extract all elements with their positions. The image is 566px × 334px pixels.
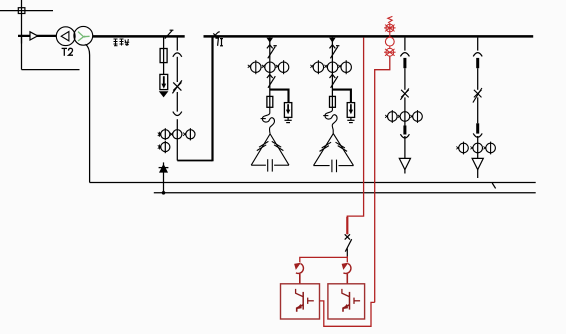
- label T2: [62, 48, 73, 56]
- wire lower horizontal feeder line 2: [154, 192, 536, 194]
- wire return channel cubicle1 to riser 2: [320, 301, 375, 326]
- wire fuse-feeder stem: [163, 38, 165, 75]
- bus I (left busbar section): [93, 35, 185, 38]
- arrester ground: [285, 117, 292, 122]
- flexible lead squiggle: [388, 16, 393, 22]
- discharge coil curl: [261, 107, 275, 134]
- disconnector lower (blade): [330, 75, 338, 88]
- fuse FU1: [160, 49, 167, 63]
- wire: [176, 57, 178, 82]
- converter cubicle 1 (box): [281, 284, 320, 319]
- wire: [477, 97, 479, 123]
- current transformer row: [385, 110, 422, 123]
- capacitor bank feeder 1: [248, 38, 292, 172]
- drawout contact upper (arc): [400, 53, 409, 57]
- transformer T2 primary winding (delta): [56, 27, 75, 46]
- wire: [404, 136, 406, 174]
- label lI section: [215, 38, 223, 46]
- current transformer row on QF1 feeder: [158, 128, 195, 140]
- outgoing feeder 4 (drawout breaker): [456, 38, 495, 178]
- drawout contact lower (arc): [173, 112, 182, 116]
- transformer T2 secondary winding (wye, green): [74, 26, 93, 45]
- disconnector upper (blade): [330, 45, 340, 59]
- current transformer row: [248, 60, 289, 74]
- breaker QF1 (cross with blade): [172, 80, 182, 93]
- wire red jog from breaker to riser 2: [375, 56, 390, 302]
- wire branch to arrester: [270, 90, 289, 103]
- drawout contact upper (arc): [173, 53, 182, 57]
- drawout contact lower (arc): [473, 133, 482, 137]
- outgoing arrow head: [472, 158, 483, 169]
- wire branch to arrester: [332, 90, 351, 103]
- IGBT symbol in cubicle 2: [342, 289, 360, 312]
- IGBT symbol in cubicle 1: [296, 289, 314, 312]
- drawout contact lower (arc): [400, 134, 409, 138]
- tick on line 1: [492, 183, 495, 188]
- junction tick at bus: [329, 38, 336, 43]
- upper drawout contact (circle with cross): [384, 24, 396, 32]
- capacitor bank feeder 2: [310, 38, 354, 173]
- breaker closed bar: [403, 58, 406, 68]
- wire transformer secondary drop: [86, 44, 90, 182]
- wire lower horizontal feeder line 1: [90, 182, 536, 184]
- arrow incoming feed: [30, 32, 38, 40]
- current transformer row: [310, 60, 351, 74]
- wire: [477, 136, 479, 178]
- drawout breaker assembly (red) at bus II: [384, 16, 396, 56]
- wire: [477, 68, 479, 90]
- wire: [176, 119, 178, 160]
- switch cross: [473, 88, 482, 103]
- label busbar (small characters): [114, 39, 130, 46]
- surge arrester: [347, 103, 354, 118]
- wire: [176, 92, 178, 112]
- current transformer row: [456, 142, 495, 155]
- current transformer lower extra: [158, 141, 170, 153]
- bus II (right busbar section): [204, 35, 534, 38]
- wire red riser 1 from bus II: [347, 38, 363, 235]
- wire stem: [331, 38, 333, 97]
- plug connector left: [295, 263, 304, 284]
- wire through bus: [389, 23, 391, 37]
- wire stem: [477, 38, 479, 51]
- feed arrow on lower lines: [159, 162, 169, 194]
- discharge coil curl: [323, 107, 337, 133]
- wire L-shaped stub from HV line down-right: [22, 36, 80, 70]
- capacitor bank delta triangle: [251, 134, 289, 172]
- disconnector lower (blade): [267, 75, 275, 88]
- breaker closed bar: [476, 58, 479, 68]
- surge arrester F1 (box with arrow): [160, 74, 168, 89]
- wire stem: [404, 38, 406, 51]
- drawout contact upper (arc): [473, 53, 482, 57]
- wire: [404, 97, 406, 125]
- breaker closed bar lower: [403, 126, 406, 135]
- bold red segment above switch: [346, 217, 348, 234]
- wire below breaker: [389, 46, 391, 49]
- breaker closed bar lower: [476, 123, 479, 133]
- converter cubicle 2 (box): [328, 284, 365, 319]
- plug connector right: [342, 263, 351, 284]
- surge arrester: [284, 103, 291, 118]
- wire: [404, 68, 406, 90]
- ground arrow below arrester: [159, 91, 169, 97]
- wire red distribution to converter cubicles: [300, 256, 348, 262]
- circuit breaker feeder QF1 stem: [176, 38, 178, 51]
- isolating switch (black) in red feeder: [345, 234, 352, 256]
- outgoing arrow head: [399, 158, 410, 169]
- disconnect switch QS1 on bus I: [165, 30, 174, 38]
- wire HV incoming line: [18, 35, 57, 37]
- breaker circle: [385, 37, 394, 46]
- node A (grid reference marker top-left): [0, 0, 53, 44]
- disconnect switch at bus II left end: [212, 32, 219, 38]
- switch cross: [400, 88, 409, 99]
- fuse: [267, 96, 273, 107]
- disconnector upper (blade): [267, 45, 277, 59]
- lower drawout contact (circle with cross): [384, 48, 396, 56]
- wire bus-tie run to bus II: [177, 160, 212, 162]
- capacitor bank delta triangle: [314, 134, 354, 173]
- outgoing feeder 3 (drawout breaker): [385, 38, 422, 174]
- junction tick at bus: [267, 38, 274, 43]
- fuse: [330, 96, 336, 107]
- arrester ground: [347, 117, 354, 122]
- wire stem: [269, 38, 271, 97]
